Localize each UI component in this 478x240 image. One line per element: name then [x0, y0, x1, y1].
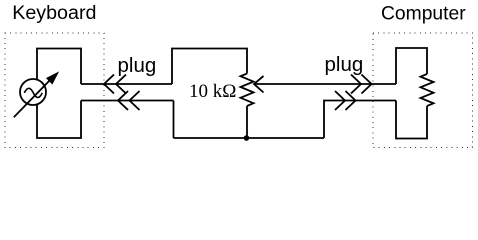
- wire: keyboard loop bottom-left: [37, 101, 81, 139]
- svg-text:Keyboard: Keyboard: [12, 2, 96, 24]
- plug connector, computer bottom wire (>>): [335, 91, 356, 110]
- svg-text:plug: plug: [325, 53, 364, 76]
- svg-text:Computer: Computer: [381, 4, 466, 25]
- variable AC source (keyboard transducer): [14, 73, 58, 118]
- junction dot: [244, 135, 250, 141]
- wire: keyboard loop top-left: [37, 49, 81, 85]
- wire: pot box left side riser: [172, 49, 247, 85]
- svg-text:plug: plug: [118, 54, 157, 77]
- wire: computer loop bottom: [396, 101, 427, 139]
- plug connector, computer top wire (>>): [351, 75, 372, 94]
- wire: bottom drop from keyboard lower wire: [173, 101, 175, 139]
- plug connector, keyboard top wire (<<): [104, 75, 126, 94]
- computer enclosure (dotted box): [373, 33, 473, 148]
- plug connector, keyboard bottom wire (<<): [118, 91, 140, 110]
- wire: computer loop top: [396, 48, 427, 84]
- resistor (computer input): [421, 74, 434, 106]
- keyboard enclosure (dotted box): [5, 33, 104, 148]
- wire: keyboard top output to pot box: [81, 83, 172, 85]
- potentiometer 10 kOhm: [241, 74, 264, 107]
- wire: pot bottom lead: [246, 106, 248, 138]
- wire: riser to computer bottom wire: [324, 101, 396, 139]
- svg-text:10 kΩ: 10 kΩ: [189, 81, 236, 102]
- wire: wiper to computer top wire: [254, 83, 396, 85]
- wire: keyboard bottom output: [81, 100, 174, 102]
- wire: bottom rail: [174, 137, 325, 139]
